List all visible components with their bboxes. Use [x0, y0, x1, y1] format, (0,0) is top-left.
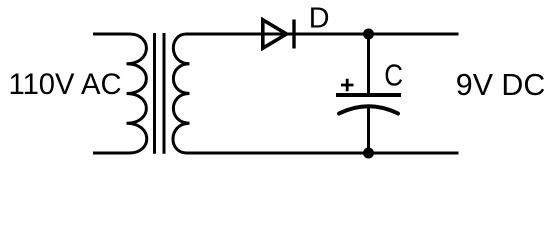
- transformer core line right: [163, 33, 166, 154]
- wire secondary bottom rail: [187, 152, 459, 155]
- svg-text:D: D: [309, 3, 330, 35]
- svg-text:9V DC: 9V DC: [456, 68, 546, 102]
- capacitor polarity + sign: [341, 79, 354, 91]
- node junction dot top: [363, 29, 374, 40]
- transformer T1 primary winding: [127, 34, 147, 153]
- wire secondary top to diode anode: [187, 33, 295, 36]
- diode D triangle (anode): [263, 20, 287, 48]
- wire primary bottom lead: [93, 152, 130, 155]
- wire primary top lead: [93, 33, 130, 36]
- capacitor C bottom plate (curved, negative): [339, 106, 398, 113]
- capacitor C top plate: [336, 93, 401, 97]
- svg-text:110V AC: 110V AC: [9, 69, 122, 101]
- transformer core line left: [153, 33, 156, 154]
- node junction dot bottom: [363, 148, 374, 159]
- diode D cathode bar: [292, 20, 295, 49]
- wire capacitor bottom lead: [367, 105, 370, 154]
- wire capacitor top lead: [367, 34, 370, 94]
- transformer T1 secondary winding: [173, 34, 190, 153]
- svg-text:C: C: [384, 59, 403, 93]
- wire diode cathode to output (top rail): [295, 33, 459, 36]
